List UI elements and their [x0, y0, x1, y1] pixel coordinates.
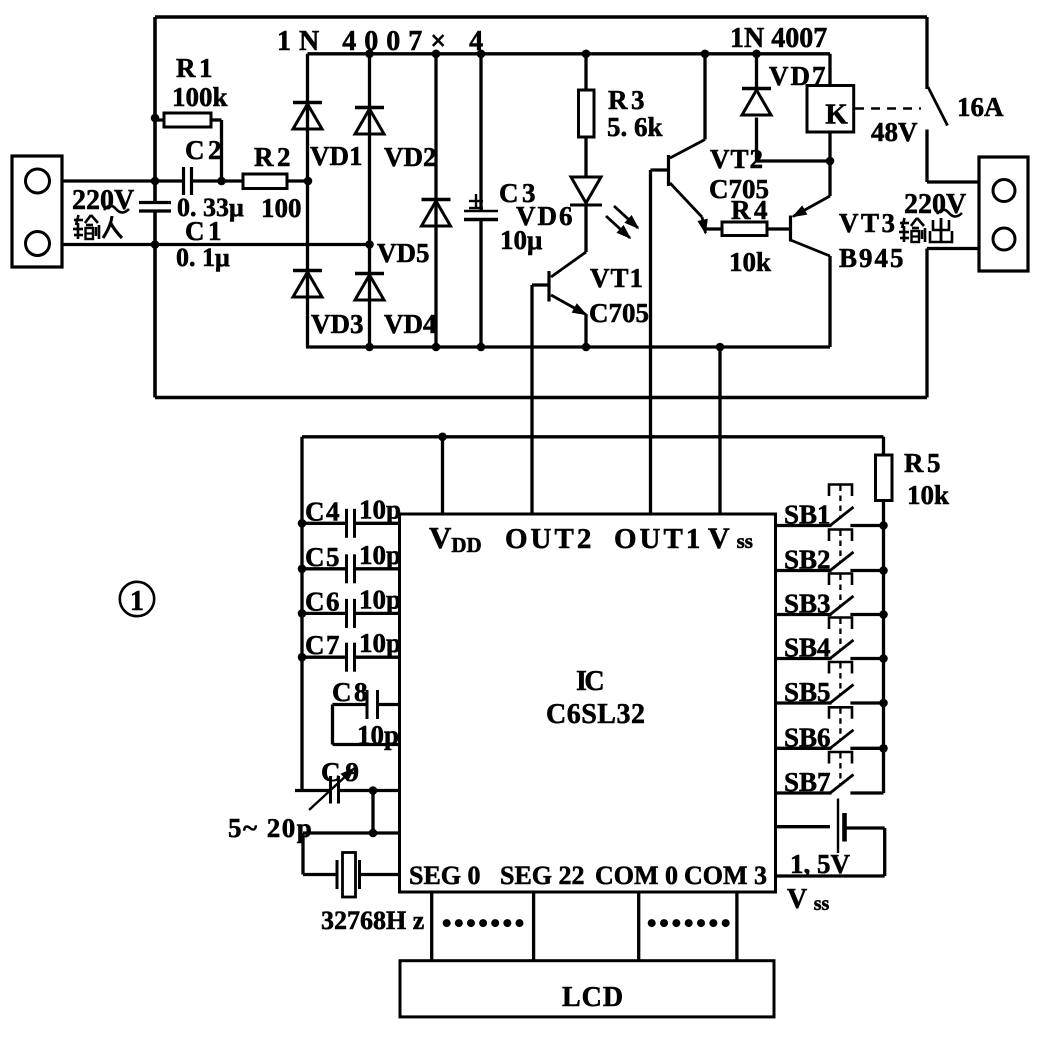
- label C2: [185, 135, 225, 165]
- label C4: [305, 496, 341, 526]
- diode VD3: [293, 271, 322, 298]
- switch SB3: [776, 574, 888, 619]
- node junction input neutral / outer: [151, 240, 160, 249]
- label SB5: [784, 677, 831, 707]
- wire COM3 pin: [735, 892, 738, 961]
- transistor VT3: [791, 196, 831, 256]
- svg-text:R2: R2: [254, 142, 294, 172]
- label Vss bottom: [787, 884, 830, 915]
- label VD1: [310, 141, 363, 171]
- wire R3 branch top: [582, 50, 591, 91]
- svg-text:48V: 48V: [871, 117, 918, 147]
- svg-text:C7: C7: [305, 630, 341, 660]
- label C6 value 10p: [359, 584, 401, 614]
- label R2 value 100: [261, 193, 302, 223]
- label VT3 type B945: [839, 243, 906, 273]
- dashed link K to switch: [855, 107, 921, 110]
- wire outer loop left edge (lower): [153, 211, 157, 398]
- wire VD6 to VT1 collector: [584, 205, 587, 252]
- label shuru (input) chinese: [73, 215, 122, 239]
- svg-text:10p: 10p: [357, 720, 399, 750]
- svg-text:SEG 22: SEG 22: [500, 861, 585, 890]
- label SB1: [784, 500, 831, 530]
- svg-text:OUT2: OUT2: [505, 523, 594, 555]
- LCD box: [400, 961, 774, 1017]
- svg-text:0. 33μ: 0. 33μ: [177, 193, 244, 222]
- wire input live: [62, 179, 184, 182]
- svg-text:C705: C705: [589, 298, 649, 328]
- label shuchu (output) chinese: [899, 218, 952, 242]
- wire R3 to VD6: [584, 137, 587, 177]
- switch SB1: [776, 485, 888, 530]
- label R3 value 5.6k: [607, 112, 663, 142]
- svg-text:VD2: VD2: [384, 142, 437, 172]
- relay K coil: [807, 86, 854, 133]
- wire 20p to crystal: [303, 833, 337, 875]
- wire C2 to R2: [192, 179, 244, 182]
- capacitor C6: [298, 599, 400, 628]
- switch SB6: [776, 707, 888, 752]
- label C8: [332, 677, 370, 707]
- svg-text:IC: IC: [576, 666, 603, 697]
- wire lower loop left vertical: [300, 437, 303, 791]
- svg-text:VD4: VD4: [384, 309, 437, 339]
- label C1: [185, 216, 225, 246]
- node VDD junction: [438, 433, 447, 442]
- svg-text:1N 4007× 4: 1N 4007× 4: [277, 26, 491, 57]
- node K bottom junction: [826, 157, 835, 166]
- label C2 value 0.33u: [177, 193, 244, 222]
- wire outer loop right edge above switch: [925, 17, 928, 89]
- label C6SL32: [546, 699, 645, 730]
- svg-text:SEG 0: SEG 0: [409, 861, 481, 890]
- resistor R2: [243, 174, 287, 189]
- wire bridge bottom rail: [306, 345, 830, 348]
- label C3: [499, 178, 539, 208]
- resistor R5: [876, 455, 893, 501]
- wire SEG22 pin: [532, 892, 535, 961]
- svg-text:C4: C4: [305, 496, 341, 526]
- label SB7: [784, 767, 831, 797]
- transistor VT1: [549, 252, 586, 315]
- wire outer loop bottom edge: [155, 396, 927, 400]
- capacitor C3: [464, 194, 498, 220]
- label C5: [305, 542, 341, 572]
- label 16A: [957, 92, 1004, 122]
- node VD2 top junction: [365, 50, 374, 59]
- diode VD6 (LED): [570, 177, 602, 205]
- label C7: [305, 630, 341, 660]
- label SB2: [784, 545, 831, 575]
- svg-text:10p: 10p: [359, 540, 401, 570]
- label VT2: [710, 144, 764, 174]
- svg-text:VD1: VD1: [310, 141, 363, 171]
- wire R2 to bridge: [287, 177, 312, 186]
- svg-text:C6: C6: [305, 586, 341, 616]
- capacitor C2: [184, 167, 192, 195]
- capacitor C1: [139, 203, 171, 212]
- diode VD4: [355, 274, 384, 301]
- wire outer loop top edge: [155, 15, 927, 19]
- wire input neutral: [62, 243, 370, 246]
- figure marker circled 1: [120, 582, 154, 617]
- wire Vss link: [716, 343, 725, 514]
- svg-text:C2: C2: [185, 135, 225, 165]
- wire bridge left vertical: [306, 54, 309, 347]
- label 220V output: [904, 189, 966, 220]
- label VT1: [590, 263, 644, 293]
- node 20p row junction: [369, 829, 378, 838]
- label R2: [254, 142, 294, 172]
- wire C9 to 20p row: [371, 791, 374, 834]
- switch 16A blade: [928, 87, 948, 126]
- wire bridge top rail: [308, 52, 831, 55]
- wire outer loop left edge (upper): [153, 17, 157, 203]
- label R1: [176, 53, 216, 83]
- ellipsis dots SEG bus: [443, 919, 524, 927]
- wire R5 rail top corner: [882, 437, 885, 456]
- pin label COM0: [595, 861, 678, 890]
- label C9 value 5-20p: [228, 813, 313, 843]
- svg-text:R4: R4: [731, 195, 771, 225]
- wire bridge second vertical: [368, 54, 371, 347]
- label SB4: [784, 633, 831, 663]
- node VD5 top junction: [432, 50, 441, 59]
- label R4 value 10k: [729, 247, 771, 277]
- svg-text:B945: B945: [839, 243, 906, 273]
- svg-text:C8: C8: [332, 677, 370, 707]
- wire 20p row: [303, 831, 400, 834]
- label C6: [305, 586, 341, 616]
- wire VD5 vertical: [434, 54, 437, 347]
- svg-text:SB5: SB5: [784, 677, 831, 707]
- svg-text:C9: C9: [321, 757, 364, 787]
- wire R4 to VT3 base: [767, 227, 789, 230]
- label C8 value 10p: [357, 720, 399, 750]
- node input neutral to bridge: [365, 240, 374, 249]
- node C9 junction: [369, 786, 378, 795]
- switch SB4: [776, 618, 888, 663]
- wire K bottom: [828, 132, 831, 162]
- svg-text:32768H z: 32768H z: [321, 906, 424, 935]
- svg-text:10k: 10k: [907, 480, 949, 510]
- svg-text:VD6: VD6: [516, 201, 575, 231]
- pin label OUT2: [505, 523, 594, 555]
- svg-text:R5: R5: [904, 448, 944, 478]
- label SB3: [784, 589, 831, 619]
- label 32768Hz: [321, 906, 424, 935]
- label R1 value 100k: [172, 82, 228, 112]
- svg-text:COM 3: COM 3: [684, 861, 767, 890]
- wire VT2 base to OUT1: [651, 170, 669, 514]
- label R5: [904, 448, 944, 478]
- svg-text:10k: 10k: [729, 247, 771, 277]
- svg-text:16A: 16A: [957, 92, 1004, 122]
- svg-text:VT3: VT3: [839, 208, 898, 238]
- label C5 value 10p: [359, 540, 401, 570]
- label VD4: [384, 309, 437, 339]
- label R4: [731, 195, 771, 225]
- svg-text:LCD: LCD: [562, 982, 624, 1013]
- wire VT1 base to OUT2: [532, 285, 549, 514]
- crystal 32768Hz: [337, 853, 400, 898]
- label VT1 type C705: [589, 298, 649, 328]
- svg-text:SB4: SB4: [784, 633, 831, 663]
- capacitor C5: [298, 554, 400, 583]
- diode VD2: [355, 108, 384, 135]
- label 1.5V: [790, 849, 851, 879]
- label IC: [576, 666, 603, 697]
- svg-text:10p: 10p: [359, 628, 401, 658]
- transistor VT2: [669, 140, 708, 234]
- svg-text:1, 5V: 1, 5V: [790, 849, 851, 879]
- label C3 value 10u: [500, 225, 542, 255]
- svg-text:VT1: VT1: [590, 263, 644, 293]
- svg-text:SB6: SB6: [784, 722, 831, 752]
- pin label COM3: [684, 861, 767, 890]
- svg-text:0. 1μ: 0. 1μ: [176, 243, 230, 272]
- wire COM0 pin: [637, 892, 640, 961]
- capacitor C4: [298, 509, 400, 538]
- svg-text:1: 1: [130, 586, 144, 617]
- node VD4 bottom junction: [365, 343, 374, 352]
- label 1N4007 (VD7): [730, 23, 827, 54]
- wire VT1 emitter down: [582, 314, 591, 351]
- svg-text:5~ 20p: 5~ 20p: [228, 813, 313, 843]
- wire lower loop top: [302, 435, 884, 438]
- switch SB5: [776, 662, 888, 707]
- svg-text:COM 0: COM 0: [595, 861, 678, 890]
- switch SB7: [776, 752, 884, 794]
- svg-text:C5: C5: [305, 542, 341, 572]
- svg-text:V ss: V ss: [787, 884, 830, 915]
- label C1 value 0.1u: [176, 243, 230, 272]
- label VD2: [384, 142, 437, 172]
- diode VD1: [293, 103, 322, 130]
- svg-text:100k: 100k: [172, 82, 228, 112]
- capacitor C9 trimmer: [295, 769, 400, 811]
- pin label SEG22: [500, 861, 585, 890]
- svg-text:C6SL32: C6SL32: [546, 699, 645, 730]
- label 220V input: [72, 185, 134, 216]
- resistor R3: [579, 90, 595, 137]
- pin label OUT1: [614, 523, 703, 555]
- svg-text:SB1: SB1: [784, 500, 831, 530]
- label VD6: [516, 201, 575, 231]
- label 48V: [871, 117, 918, 147]
- wire VT3 collector down: [828, 256, 831, 347]
- wire C3 vertical lower: [479, 219, 482, 347]
- output terminal block: [979, 157, 1028, 271]
- switch SB2: [776, 530, 888, 575]
- wire switch to output live: [927, 130, 979, 183]
- label C9: [321, 757, 364, 787]
- label R5 value 10k: [907, 480, 949, 510]
- svg-text:1N 4007: 1N 4007: [730, 23, 827, 54]
- wire VD7 vertical: [752, 50, 761, 162]
- diode VD5: [422, 200, 451, 227]
- wire top rail to K: [828, 54, 831, 87]
- svg-text:10p: 10p: [359, 494, 401, 524]
- label LCD: [562, 982, 624, 1013]
- label VT3: [839, 208, 898, 238]
- capacitor C8: [333, 690, 400, 745]
- label VT2 type C705: [709, 174, 769, 204]
- diode VD7: [742, 89, 771, 116]
- node junction input live / outer: [151, 177, 160, 186]
- node C3 bottom junction: [477, 343, 486, 352]
- svg-text:VD3: VD3: [311, 309, 364, 339]
- pin label VDD: [429, 520, 482, 557]
- label VD3: [311, 309, 364, 339]
- node VD5 bottom junction: [432, 343, 441, 352]
- label C7 value 10p: [359, 628, 401, 658]
- op-amp IC C6SL32 box: [400, 514, 776, 892]
- svg-text:R3: R3: [608, 85, 648, 115]
- wire output neutral: [927, 249, 979, 398]
- input terminal block: [12, 156, 62, 267]
- wire R5 rail: [882, 501, 885, 794]
- svg-text:10p: 10p: [359, 584, 401, 614]
- wire C3 vertical upper: [479, 54, 482, 211]
- svg-text:SB2: SB2: [784, 545, 831, 575]
- pin label SEG0: [409, 861, 481, 890]
- wire VT3 emitter up: [828, 161, 831, 196]
- resistor R1: [151, 113, 226, 185]
- wire VD7 anode link: [757, 159, 831, 162]
- label 1N4007x4: [277, 26, 491, 57]
- svg-text:SB7: SB7: [784, 767, 831, 797]
- wire VT2 emitter to R4: [706, 227, 723, 230]
- svg-text:VD5: VD5: [377, 238, 430, 268]
- pin label Vss top: [708, 522, 753, 555]
- capacitor C7: [298, 643, 400, 672]
- label VD5: [377, 238, 430, 268]
- label SB6: [784, 722, 831, 752]
- svg-text:OUT1: OUT1: [614, 523, 703, 555]
- label C4 value 10p: [359, 494, 401, 524]
- svg-text:SB3: SB3: [784, 589, 831, 619]
- label R3: [608, 85, 648, 115]
- wire VT2 collector up: [701, 50, 710, 140]
- label VD7: [769, 61, 828, 91]
- battery 1.5V: [776, 799, 885, 877]
- svg-text:K: K: [825, 99, 848, 131]
- led arrows VD6: [606, 206, 638, 238]
- svg-text:5. 6k: 5. 6k: [607, 112, 663, 142]
- wire VDD pin: [441, 437, 444, 514]
- svg-text:100: 100: [261, 193, 302, 223]
- node C3 top junction: [477, 50, 486, 59]
- wire SEG0 pin: [430, 892, 433, 961]
- ellipsis dots COM bus: [648, 919, 730, 927]
- resistor R4: [722, 222, 767, 236]
- svg-text:R1: R1: [176, 53, 216, 83]
